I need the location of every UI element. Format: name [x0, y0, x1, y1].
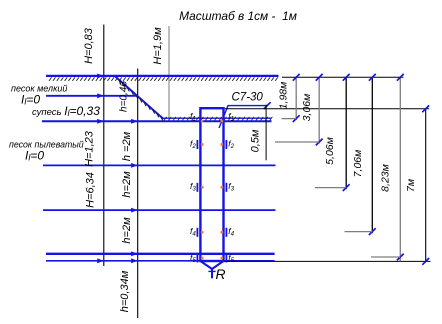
dimension line 1,98м	[295, 77, 297, 120]
friction mark f5 left	[196, 254, 198, 263]
leader arrow line to pile	[219, 106, 228, 128]
svg-text:H=1,23: H=1,23	[84, 130, 96, 167]
arrow on H-chain at fine sand bottom	[97, 93, 104, 98]
layer boundary: bottom of sandy loam / pit level	[42, 120, 272, 122]
arrow on h-chain	[131, 163, 138, 168]
vertical line H=1,9м (pit depth)	[168, 26, 170, 121]
svg-text:f2: f2	[190, 138, 196, 150]
svg-text:3,06м: 3,06м	[301, 94, 313, 122]
dimension line 5,06м	[345, 77, 347, 189]
svg-text:f1: f1	[190, 111, 196, 123]
svg-text:h=0,46: h=0,46	[119, 81, 130, 112]
dimension line 3,06м	[318, 77, 320, 143]
leader for 1,98м	[282, 118, 297, 120]
dimension line 7,06м	[371, 77, 373, 233]
vertical layer-thickness chain line h	[137, 69, 139, 319]
arrow on h-chain	[131, 258, 138, 263]
svg-text:f2: f2	[228, 138, 234, 150]
dimension line 8,23м	[399, 77, 401, 261]
svg-text:f3: f3	[228, 181, 234, 193]
slope hatching	[119, 80, 163, 121]
svg-text:0,5м: 0,5м	[250, 129, 262, 152]
friction mark f2 left	[196, 140, 198, 149]
svg-text:Il=0: Il=0	[25, 149, 44, 163]
svg-text:песок пылеватый: песок пылеватый	[9, 140, 84, 150]
friction mark f4 right	[225, 228, 227, 237]
vertical depth-chain line H (left)	[103, 25, 105, 267]
svg-text:R: R	[216, 266, 226, 282]
svg-text:С7-30: С7-30	[232, 92, 264, 104]
leader for 3,06м	[275, 141, 319, 143]
arrow on H-chain at ground	[97, 74, 104, 79]
svg-text:H=0,83: H=0,83	[83, 27, 95, 64]
svg-text:супесь Il=0,33: супесь Il=0,33	[32, 104, 100, 118]
friction mark f3 right	[225, 183, 227, 192]
arrow on H-chain at tip level	[97, 258, 104, 263]
layer line at -3,06	[43, 164, 276, 166]
pit bottom hatching	[164, 117, 272, 121]
leader underline	[228, 105, 268, 107]
leader for 5,06м	[315, 187, 346, 189]
svg-text:1,98м: 1,98м	[277, 82, 289, 110]
arrow on H-chain at pit level	[97, 119, 104, 124]
excavation slope line	[115, 77, 163, 120]
friction mark f1 right	[221, 120, 224, 123]
pile C7-30 body	[200, 108, 223, 261]
svg-text:f1: f1	[228, 111, 234, 123]
svg-text:h=0,34м: h=0,34м	[119, 270, 131, 312]
point resistance R arrow	[211, 269, 213, 278]
svg-text:H=6,34: H=6,34	[84, 172, 96, 208]
pile pointed tip	[200, 261, 223, 269]
svg-text:Il=0: Il=0	[21, 93, 40, 107]
svg-text:7,06м: 7,06м	[352, 150, 364, 178]
0,5м dimension line	[265, 105, 267, 161]
ground surface line	[46, 75, 279, 77]
pit bottom line	[163, 117, 272, 119]
pile head level line	[225, 108, 430, 110]
datum line at ground level	[282, 76, 404, 78]
svg-text:5,06м: 5,06м	[324, 137, 336, 165]
svg-text:h=2м: h=2м	[121, 217, 133, 244]
svg-text:f3: f3	[190, 181, 196, 193]
svg-text:h =2м: h =2м	[121, 131, 133, 161]
leader for 7,06м	[345, 231, 373, 233]
svg-text:8,23м: 8,23м	[379, 164, 391, 192]
friction mark f1 left	[201, 120, 204, 123]
tick at leader/dim crossing	[264, 102, 271, 109]
dimension line 7м	[425, 109, 427, 262]
pile tip level line	[225, 260, 431, 262]
layer line at -7,06 (upper of bottom pair)	[46, 253, 275, 255]
svg-text:f4: f4	[228, 226, 234, 238]
pile tip level blue line	[46, 260, 275, 262]
svg-text:f4: f4	[190, 226, 196, 238]
friction mark f3 left	[196, 183, 198, 192]
arrow on h-chain	[131, 208, 138, 213]
svg-text:H=1,9м: H=1,9м	[152, 27, 164, 65]
arrow on h-chain	[131, 119, 138, 124]
svg-text:Масштаб в 1см - 1м: Масштаб в 1см - 1м	[179, 9, 297, 23]
friction mark f5 right	[225, 254, 227, 263]
layer boundary: bottom of fine sand	[46, 95, 136, 97]
friction mark f4 left	[196, 228, 198, 237]
leader for 8,23м	[371, 256, 400, 258]
layer line at -5,06	[43, 209, 276, 211]
arrow on h-chain	[131, 251, 138, 256]
svg-text:7м: 7м	[405, 179, 417, 192]
friction mark f2 right	[225, 140, 227, 149]
ground surface hatching	[49, 77, 278, 81]
svg-text:h=2м: h=2м	[121, 171, 133, 198]
